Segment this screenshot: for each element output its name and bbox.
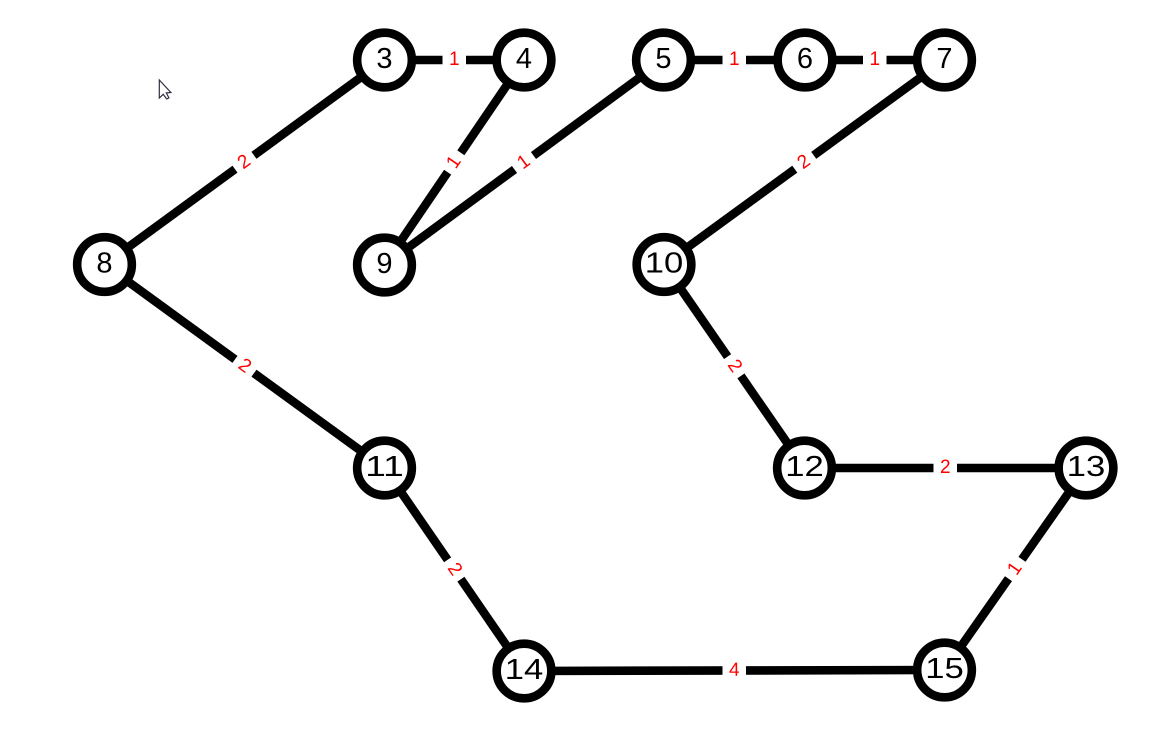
edge label 1 (5-6) — [723, 49, 747, 71]
svg-text:3: 3 — [376, 43, 392, 75]
edge 9-5 — [385, 60, 664, 265]
edge label 4 (14-15) — [722, 659, 746, 681]
edge 13-15 — [945, 468, 1087, 670]
svg-text:5: 5 — [655, 43, 671, 75]
svg-text:14: 14 — [505, 654, 544, 686]
node 14 — [497, 644, 552, 699]
svg-text:9: 9 — [376, 248, 392, 280]
svg-text:15: 15 — [925, 653, 964, 685]
node 6 — [778, 33, 833, 88]
edge 10-7 — [664, 60, 945, 265]
edge label 2 (8-3) — [229, 146, 261, 178]
svg-text:8: 8 — [96, 247, 112, 279]
svg-text:13: 13 — [1067, 451, 1106, 483]
edge label 2 (10-7) — [788, 146, 820, 178]
node 7 — [917, 33, 972, 88]
svg-text:11: 11 — [365, 451, 404, 483]
edge 12-13 — [805, 464, 1087, 473]
svg-text:4: 4 — [729, 660, 740, 681]
edge 9-4 — [385, 60, 525, 265]
edge 14-15 — [524, 670, 945, 671]
edge label 2 (11-14) — [439, 554, 470, 586]
node 10 — [637, 237, 692, 292]
node 8 — [77, 237, 132, 292]
edge label 1 (9-4) — [439, 147, 470, 179]
edge 11-14 — [385, 468, 525, 671]
svg-text:1: 1 — [729, 49, 740, 70]
node 3 — [357, 33, 412, 88]
edge label 1 (3-4) — [443, 49, 467, 71]
edge 5-6 — [664, 56, 806, 65]
edge label 2 (8-11) — [229, 350, 261, 382]
node 13 — [1059, 441, 1114, 496]
edge label 1 (13-15) — [999, 553, 1031, 585]
svg-text:1: 1 — [869, 49, 880, 70]
node 4 — [497, 33, 552, 88]
node 5 — [636, 33, 691, 88]
mouse cursor — [159, 80, 171, 99]
edge 6-7 — [805, 56, 945, 65]
svg-text:2: 2 — [940, 457, 951, 478]
node 11 — [357, 441, 412, 496]
svg-text:7: 7 — [936, 43, 952, 75]
svg-text:1: 1 — [449, 49, 460, 70]
edge 10-12 — [664, 265, 805, 469]
svg-text:4: 4 — [516, 43, 532, 75]
edge label 2 (10-12) — [719, 350, 750, 382]
svg-text:6: 6 — [797, 43, 813, 75]
node 9 — [357, 238, 412, 293]
svg-text:10: 10 — [645, 247, 684, 279]
edge 3-4 — [385, 56, 525, 65]
edge label 1 (9-5) — [508, 147, 540, 179]
node 12 — [777, 441, 832, 496]
node 15 — [917, 643, 972, 698]
edge 8-11 — [105, 265, 385, 469]
svg-text:12: 12 — [785, 451, 824, 483]
edge 8-3 — [105, 60, 385, 265]
edge label 2 (12-13) — [934, 457, 958, 479]
edge label 1 (6-7) — [863, 49, 887, 71]
